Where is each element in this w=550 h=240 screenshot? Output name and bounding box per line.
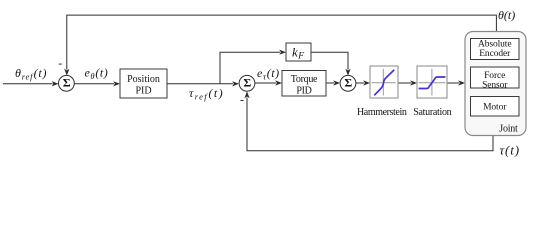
svg-text:eθ(t): eθ(t) bbox=[85, 66, 109, 82]
svg-text:Σ: Σ bbox=[243, 76, 251, 90]
svg-text:Joint: Joint bbox=[499, 124, 518, 135]
svg-text:Absolute: Absolute bbox=[478, 40, 512, 50]
svg-text:θ(t): θ(t) bbox=[498, 8, 515, 22]
svg-text:-: - bbox=[58, 56, 62, 70]
svg-text:Torque: Torque bbox=[291, 74, 318, 85]
svg-text:Hammerstein: Hammerstein bbox=[357, 107, 407, 118]
svg-text:Position: Position bbox=[127, 74, 160, 85]
svg-text:Sensor: Sensor bbox=[482, 81, 508, 91]
svg-text:Force: Force bbox=[484, 71, 505, 81]
svg-text:PID: PID bbox=[135, 86, 151, 97]
svg-text:Saturation: Saturation bbox=[413, 107, 451, 118]
svg-text:PID: PID bbox=[296, 86, 311, 97]
svg-text:τ(t): τ(t) bbox=[500, 143, 521, 158]
svg-text:Motor: Motor bbox=[483, 103, 507, 113]
svg-text:Σ: Σ bbox=[63, 76, 71, 90]
svg-text:-: - bbox=[240, 93, 244, 107]
svg-text:Σ: Σ bbox=[344, 76, 352, 90]
svg-text:eτ(t): eτ(t) bbox=[257, 66, 280, 82]
svg-text:Encoder: Encoder bbox=[479, 49, 511, 59]
